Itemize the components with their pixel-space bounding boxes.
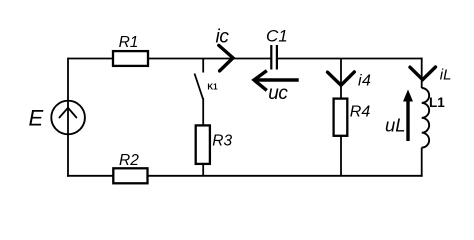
svg-text:E: E — [29, 105, 44, 130]
svg-text:R3: R3 — [212, 132, 232, 149]
wire bottom rail left segment — [67, 175, 113, 177]
current arrow iL — [410, 67, 436, 80]
voltage arrow uL — [403, 90, 413, 142]
resistor R3 — [196, 125, 210, 163]
svg-text:L1: L1 — [429, 95, 445, 110]
svg-text:uc: uc — [268, 83, 288, 104]
svg-text:K1: K1 — [207, 83, 218, 92]
voltage arrow uc — [254, 71, 299, 91]
resistor R2 — [113, 168, 147, 183]
switch K1 — [195, 59, 204, 100]
wire R3 to bottom rail — [202, 164, 204, 176]
wire bottom rail right segment — [148, 175, 423, 177]
resistor R4 — [334, 99, 348, 136]
inductor L1 — [422, 88, 429, 148]
wire R4 branch top — [340, 59, 342, 99]
resistor R1 — [113, 51, 148, 66]
wire switch to R3 — [202, 98, 204, 125]
current arrow ic — [219, 45, 233, 71]
wire left branch vertical — [67, 58, 69, 177]
svg-text:R4: R4 — [350, 103, 371, 120]
wire top rail right segment — [277, 58, 423, 60]
svg-text:iL: iL — [440, 66, 452, 83]
wire top rail left segment — [68, 58, 113, 60]
capacitor C1 — [271, 45, 277, 70]
wire top rail middle segment — [148, 58, 271, 60]
current arrow i4 — [328, 72, 355, 85]
svg-text:uL: uL — [385, 114, 406, 135]
wire R4 to bottom rail — [340, 136, 342, 176]
wire right branch top — [421, 58, 423, 88]
svg-text:R1: R1 — [119, 34, 139, 51]
svg-text:R2: R2 — [119, 152, 139, 169]
svg-text:C1: C1 — [266, 26, 288, 45]
svg-text:i4: i4 — [358, 72, 371, 89]
svg-text:ic: ic — [216, 26, 230, 47]
wire L1 to bottom rail — [421, 148, 423, 177]
source E — [51, 101, 85, 135]
